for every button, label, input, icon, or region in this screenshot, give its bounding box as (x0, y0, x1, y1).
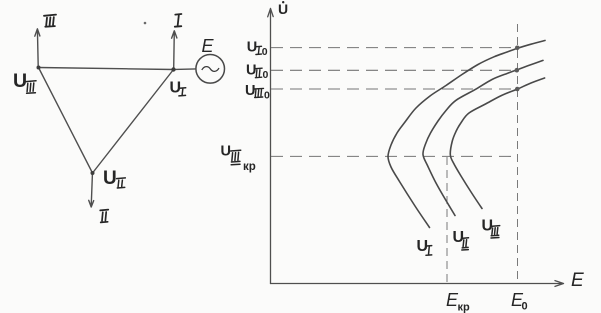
svg-text:U: U (103, 168, 117, 189)
svg-text:0: 0 (263, 69, 269, 81)
svg-text:кр: кр (458, 302, 471, 313)
svg-text:E: E (202, 36, 215, 56)
wire B-C (right side of triangle) (93, 70, 174, 174)
dashed level U_II0 (271, 69, 517, 71)
svg-text:0: 0 (262, 46, 268, 58)
svg-text:0: 0 (264, 90, 270, 102)
arrow II (down from node C) (89, 175, 94, 208)
U axis (vertical) (268, 8, 564, 286)
dashed level U_I0 (271, 47, 517, 49)
label III phasor (hand glyph: bar + 3 strokes + bottom bar) (44, 15, 56, 27)
svg-text:U: U (245, 83, 255, 99)
wire B to source E (176, 68, 196, 71)
label I (current, hand glyph) (175, 14, 182, 27)
curve U_II (423, 60, 543, 215)
node C (91, 171, 95, 175)
node A (37, 66, 41, 70)
svg-text:U: U (246, 62, 256, 78)
dashed vertical E_kr (446, 157, 448, 283)
svg-text:U: U (453, 229, 465, 246)
ink speck (144, 22, 147, 25)
svg-text:U: U (278, 1, 288, 17)
svg-text:0: 0 (522, 301, 528, 313)
svg-text:U: U (247, 40, 257, 56)
svg-text:U: U (221, 144, 231, 160)
curve U_I (388, 41, 545, 228)
wire A-C (left side of triangle) (39, 68, 93, 174)
source E circle (196, 55, 225, 84)
label II phasor below arrow (hand glyph) (100, 210, 108, 223)
wire A-B (top side of triangle) (39, 68, 174, 70)
dot at U_III0 / E_0 (515, 87, 520, 92)
dashed level U_III0 (271, 88, 517, 90)
svg-text:кр: кр (243, 161, 256, 173)
arrow I (up from node B) (172, 31, 177, 68)
dot at U_II0 / E_0 (515, 68, 520, 73)
dashed level U_IIIkr (271, 155, 518, 157)
source tilde (202, 67, 219, 72)
curve U_III (450, 78, 544, 209)
arrow III (up from node A) (35, 29, 40, 66)
dot at U_I0 / E_0 (515, 46, 520, 51)
E axis (horizontal) (271, 281, 564, 287)
svg-text:E: E (571, 270, 584, 291)
svg-text:U: U (13, 70, 27, 92)
dashed vertical E_0 (517, 24, 519, 283)
node B (171, 67, 175, 71)
